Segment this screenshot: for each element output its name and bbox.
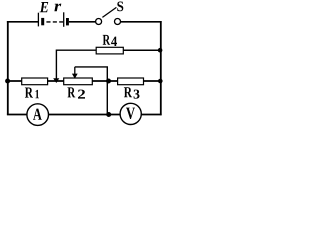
battery E r cell 1 long plate: [37, 13, 39, 27]
junction dot right main: [158, 79, 163, 84]
resistor R1: [22, 78, 48, 85]
letter V: [126, 108, 135, 119]
resistor R3: [118, 78, 144, 85]
label R3 R: [124, 87, 132, 97]
wire R4 branch corner and horizontal: [56, 50, 96, 79]
wire right vertical side: [160, 21, 162, 115]
label R3 sub3: [134, 90, 140, 99]
switch S right contact: [115, 19, 121, 25]
slider wire up-over-down to junction: [75, 67, 108, 115]
label S: [117, 2, 123, 12]
slider arrow stem: [74, 67, 76, 74]
wire R4 to right side: [123, 49, 161, 51]
main middle wire: [8, 80, 161, 82]
junction dot bottom: [106, 112, 111, 117]
junction dot middle main: [106, 79, 111, 84]
ammeter A circle: [27, 104, 49, 126]
label R1 sub1: [36, 90, 40, 98]
switch S left contact: [96, 19, 102, 25]
voltmeter V circle: [120, 103, 141, 124]
wire switch to top-right corner: [121, 21, 162, 23]
junction dot left main: [5, 79, 10, 84]
wire bottom-left horizontal: [7, 114, 27, 116]
label R4 R: [103, 35, 111, 45]
label R2 sub2: [78, 90, 85, 99]
battery cell 2 short thick plate: [66, 18, 69, 25]
label R4 sub4: [111, 37, 117, 46]
label R2 R: [67, 87, 75, 97]
wire left vertical side: [7, 21, 9, 115]
battery dashed link: [46, 21, 63, 23]
label R1 R: [25, 87, 33, 97]
wire V to bottom-right corner: [141, 114, 161, 116]
junction dot R4 right: [158, 48, 163, 53]
label r: [54, 4, 61, 12]
slider arrowhead onto R2: [72, 74, 78, 79]
wire battery to switch: [69, 21, 96, 23]
battery cell 2 long plate: [63, 12, 65, 26]
resistor R2 rheostat body: [64, 78, 93, 85]
wire A to V: [48, 114, 120, 116]
wire top-left horizontal: [7, 21, 39, 23]
letter A: [33, 109, 42, 120]
switch S blade: [102, 7, 116, 17]
arrow from R4 branch onto main wire: [53, 78, 59, 83]
battery cell 1 short thick plate: [41, 18, 44, 25]
resistor R4: [96, 47, 123, 54]
label E: [40, 2, 49, 12]
